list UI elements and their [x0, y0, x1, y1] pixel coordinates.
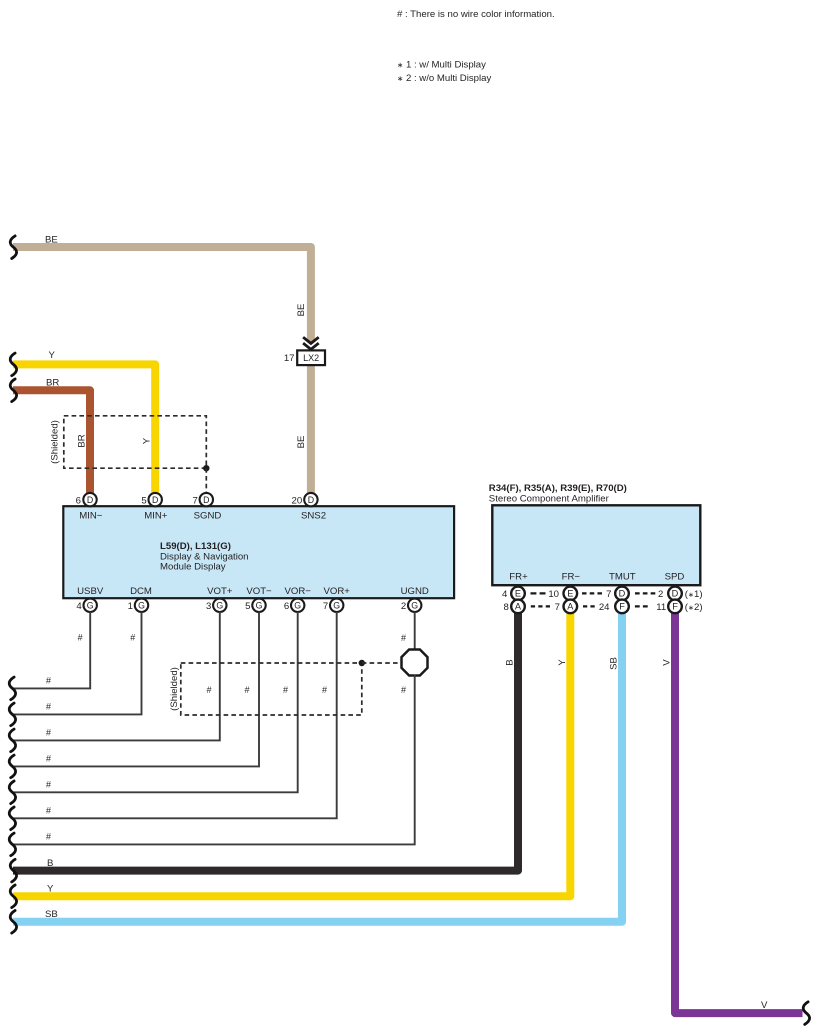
break squiggle w6 [9, 807, 15, 830]
break squiggle w1 [9, 677, 15, 700]
svg-text:BR: BR [46, 378, 59, 389]
wire Y thick lower [13, 611, 570, 896]
svg-text:#: # [46, 728, 51, 738]
pin 5 G VOT- [245, 586, 272, 612]
break squiggle w2 [9, 703, 15, 726]
amp pin row FR+ 4E 8A [502, 587, 525, 614]
svg-text:D: D [203, 495, 209, 505]
svg-text:#: # [245, 685, 250, 695]
svg-text:MIN−: MIN− [79, 510, 103, 521]
svg-text:BE: BE [296, 304, 307, 317]
svg-text:6: 6 [76, 495, 81, 506]
svg-text:D: D [619, 589, 626, 599]
dashed link row1 TMUT to SPD [635, 592, 655, 594]
svg-text:4: 4 [76, 601, 82, 612]
svg-text:BE: BE [45, 234, 58, 245]
svg-text:F: F [619, 602, 625, 612]
svg-text:#: # [130, 633, 135, 643]
svg-text:SPD: SPD [665, 571, 685, 582]
svg-text:Y: Y [142, 437, 153, 444]
break squiggle B left [10, 859, 16, 882]
svg-text:4: 4 [502, 589, 508, 600]
svg-text:#: # [401, 633, 406, 643]
wire pin4 USBV [14, 612, 91, 689]
svg-text:#: # [78, 633, 83, 643]
svg-text:(∗1): (∗1) [685, 589, 703, 600]
break squiggle w4 [9, 755, 15, 778]
dashed link row2 FR+ to FR- [531, 605, 550, 607]
svg-text:E: E [515, 589, 521, 599]
svg-text:8: 8 [503, 602, 508, 613]
wire BE [13, 247, 311, 342]
wire pin3 VOT+ [14, 612, 220, 741]
svg-text:(∗2): (∗2) [685, 602, 703, 613]
svg-text:FR−: FR− [562, 571, 581, 582]
svg-text:7: 7 [555, 602, 560, 613]
pin 4 G USBV [76, 586, 103, 612]
svg-text:#: # [46, 754, 51, 764]
svg-text:BE: BE [296, 436, 307, 449]
wire pin1 DCM [14, 612, 142, 715]
amp pin row FR- 10E 7A [548, 587, 577, 614]
wire SB thick [13, 611, 622, 922]
svg-text:20: 20 [292, 495, 303, 506]
svg-text:#: # [401, 685, 406, 695]
dashed link row1 FR+ to FR- [531, 592, 546, 594]
svg-text:#: # [46, 702, 51, 712]
svg-text:Stereo Component Amplifier: Stereo Component Amplifier [489, 493, 610, 504]
svg-text:#: # [46, 676, 51, 686]
svg-text:5: 5 [245, 601, 250, 612]
svg-text:G: G [87, 601, 94, 611]
svg-text:VOR−: VOR− [284, 586, 311, 597]
pin 7 D SGND [192, 493, 221, 522]
junction dot shield upper [203, 465, 209, 471]
junction dot shield lower [359, 660, 365, 666]
dashed drain wire to octagon [362, 662, 401, 664]
pin 6 D MIN- [76, 493, 103, 522]
svg-text:7: 7 [192, 495, 197, 506]
svg-text:11: 11 [656, 602, 666, 613]
pin 3 G VOT+ [206, 586, 233, 612]
amp pin SPD 2D 11F [656, 587, 682, 614]
svg-text:(Shielded): (Shielded) [50, 420, 61, 464]
svg-text:∗ 2 : w/o Multi Display: ∗ 2 : w/o Multi Display [397, 73, 491, 84]
svg-text:G: G [216, 601, 223, 611]
svg-text:#: # [46, 805, 51, 815]
svg-text:7: 7 [606, 589, 611, 600]
svg-text:(Shielded): (Shielded) [169, 667, 180, 711]
svg-text:6: 6 [284, 601, 289, 612]
svg-text:Y: Y [47, 884, 54, 895]
dashed link row1 FR- to TMUT [582, 592, 602, 594]
svg-text:10: 10 [548, 589, 559, 600]
svg-text:BR: BR [77, 434, 88, 447]
break squiggle V right [803, 1002, 809, 1025]
wire pin2 UGND upper [414, 612, 416, 651]
wire pin5 VOT- [14, 612, 260, 767]
svg-text:∗ 1 : w/ Multi Display: ∗ 1 : w/ Multi Display [397, 60, 486, 71]
svg-text:3: 3 [206, 601, 211, 612]
wire V thick [675, 611, 803, 1013]
dashed link row2 FR- to TMUT [583, 605, 595, 607]
break squiggle Y left [10, 353, 16, 376]
connector chevrons into LX2 [303, 337, 319, 349]
pin 2 G UGND [401, 586, 429, 612]
svg-text:7: 7 [323, 601, 328, 612]
svg-text:G: G [411, 601, 418, 611]
svg-text:LX2: LX2 [303, 353, 319, 363]
wire Y upper [13, 364, 155, 493]
svg-text:FR+: FR+ [509, 571, 528, 582]
svg-text:VOT−: VOT− [246, 586, 272, 597]
pin 7 G VOR+ [323, 586, 350, 612]
svg-text:L59(D), L131(G): L59(D), L131(G) [160, 541, 231, 552]
svg-text:SGND: SGND [194, 510, 222, 521]
svg-text:1: 1 [128, 601, 133, 612]
wire BE lower segment [307, 364, 315, 493]
svg-text:17: 17 [284, 353, 295, 364]
display module box L59(D), L131(G) [63, 506, 454, 598]
svg-text:24: 24 [599, 602, 610, 613]
svg-text:B: B [505, 659, 516, 665]
svg-text:#: # [207, 685, 212, 695]
svg-text:D: D [672, 589, 679, 599]
svg-text:#: # [283, 685, 288, 695]
wire pin7 VOR+ [14, 612, 337, 819]
break squiggle Y lower left [10, 885, 16, 908]
dashed drain wire to SGND [205, 468, 207, 493]
pin 1 G DCM [128, 586, 152, 612]
amplifier box R34(F), R35(A), R39(E), R70(D) [492, 505, 700, 585]
break squiggle w5 [9, 781, 15, 804]
svg-text:USBV: USBV [77, 586, 104, 597]
svg-text:Y: Y [49, 350, 56, 361]
svg-text:G: G [333, 601, 340, 611]
svg-text:VOT+: VOT+ [207, 586, 233, 597]
svg-text:DCM: DCM [130, 586, 152, 597]
break squiggle SB left [10, 911, 16, 934]
svg-text:VOR+: VOR+ [323, 586, 350, 597]
svg-text:B: B [47, 858, 53, 869]
svg-text:SNS2: SNS2 [301, 510, 326, 521]
svg-text:D: D [87, 495, 93, 505]
noise filter octagon [402, 650, 428, 676]
svg-text:#: # [322, 685, 327, 695]
svg-text:Y: Y [557, 659, 568, 666]
svg-text:G: G [294, 601, 301, 611]
wire pin6 VOR- [14, 612, 298, 793]
break squiggle BR left [10, 379, 16, 402]
svg-text:2: 2 [401, 601, 406, 612]
break squiggle w3 [9, 729, 15, 752]
svg-text:A: A [567, 602, 574, 612]
wire pin2 UGND lower [14, 675, 415, 845]
svg-text:#: # [46, 779, 51, 789]
pin 5 D MIN+ [141, 493, 167, 522]
shield box lower (Shielded) [181, 663, 362, 715]
svg-text:V: V [661, 659, 672, 666]
svg-text:G: G [256, 601, 263, 611]
wire B thick [13, 611, 518, 871]
svg-text:# : There is no wire color inf: # : There is no wire color information. [397, 9, 555, 20]
svg-text:Module Display: Module Display [160, 562, 226, 573]
svg-text:D: D [308, 495, 314, 505]
connector LX2 box [297, 350, 325, 365]
dashed link row2 TMUT to SPD [635, 605, 648, 607]
break squiggle w7 [9, 833, 15, 856]
svg-text:5: 5 [141, 495, 146, 506]
svg-text:UGND: UGND [401, 586, 429, 597]
pin 20 D SNS2 [292, 493, 327, 522]
svg-text:TMUT: TMUT [609, 571, 636, 582]
svg-text:2: 2 [658, 589, 663, 600]
wire BR [13, 390, 90, 493]
svg-text:MIN+: MIN+ [144, 510, 168, 521]
svg-text:SB: SB [609, 657, 620, 670]
svg-text:V: V [761, 1000, 768, 1011]
pin 6 G VOR- [284, 586, 311, 612]
svg-text:D: D [152, 495, 158, 505]
svg-text:SB: SB [45, 909, 58, 920]
break squiggle BE left [10, 236, 16, 259]
svg-text:E: E [567, 589, 573, 599]
svg-text:A: A [515, 602, 522, 612]
svg-text:F: F [672, 602, 678, 612]
shield box upper (Shielded) [64, 416, 207, 468]
svg-text:#: # [46, 832, 51, 842]
amp pin TMUT 7D 24F [599, 587, 629, 614]
svg-text:G: G [138, 601, 145, 611]
